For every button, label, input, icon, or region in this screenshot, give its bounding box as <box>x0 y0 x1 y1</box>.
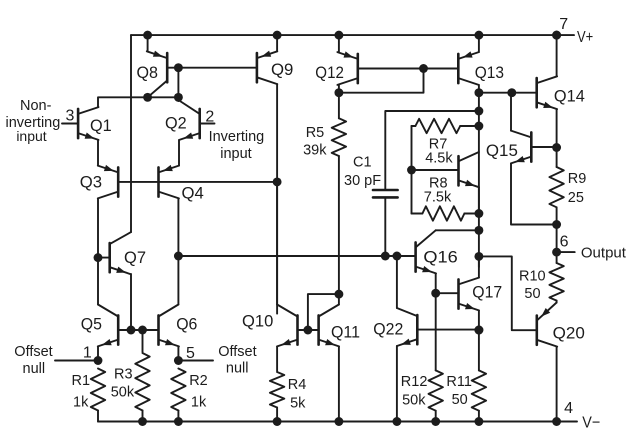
svg-text:Output: Output <box>581 245 627 262</box>
node Q7 base <box>94 253 103 262</box>
wire Q7 collector to V+ <box>130 35 132 232</box>
wire C1 top <box>385 111 479 189</box>
wire Q1 collector <box>98 97 178 107</box>
svg-text:5k: 5k <box>290 395 306 411</box>
node Q22 collector <box>392 252 401 261</box>
svg-text:input: input <box>16 128 46 144</box>
wire base to collectors <box>177 68 179 98</box>
resistor R11 <box>446 330 486 422</box>
node Q9 emitter rail <box>273 31 282 40</box>
node Q16 collector bus <box>474 226 483 235</box>
node Q15 emitter <box>552 220 561 229</box>
node Q13 emitter rail <box>474 31 483 40</box>
resistor R9 <box>549 167 586 225</box>
svg-text:25: 25 <box>568 190 584 206</box>
node R7R8 base tap <box>407 166 416 175</box>
node R2 rail <box>174 417 183 426</box>
resistor R8 <box>412 176 479 221</box>
resistor R7 <box>412 119 479 167</box>
svg-text:Q13: Q13 <box>475 63 504 82</box>
node base tie Q8Q9 <box>174 63 183 72</box>
wire Q8-Q9 base line <box>167 67 257 69</box>
wire Q22 emitter down <box>396 346 398 422</box>
transistor Q22 <box>373 308 417 346</box>
transistor Q13 <box>458 51 504 85</box>
node Q11 collector tie <box>334 290 343 299</box>
svg-text:Q7: Q7 <box>124 248 146 267</box>
node Q12 emitter rail <box>334 31 343 40</box>
wire Q16 emitter down <box>435 273 437 370</box>
svg-text:R9: R9 <box>568 171 587 187</box>
label Offset null right <box>218 344 256 377</box>
node pin 7 V+ <box>552 16 593 46</box>
wire Q11 emitter down <box>338 346 340 421</box>
svg-text:2: 2 <box>205 109 214 126</box>
svg-text:Q15: Q15 <box>486 141 518 160</box>
wire R2 bottom <box>177 411 179 422</box>
svg-text:null: null <box>23 361 46 377</box>
pin 2 lead <box>200 109 215 126</box>
transistor Q6 <box>159 305 198 347</box>
wire base tie up <box>308 294 339 330</box>
wire right bus upper <box>478 93 480 267</box>
node pin 5 <box>174 356 183 365</box>
node pin 4 V- <box>552 400 600 431</box>
node Q13 collector <box>474 88 483 97</box>
wire Q4 collector down <box>177 198 179 256</box>
svg-text:5: 5 <box>186 345 195 362</box>
svg-text:R11: R11 <box>446 374 472 390</box>
wire second stage input <box>178 255 415 257</box>
node R7 right <box>474 122 483 131</box>
svg-text:1: 1 <box>83 344 92 361</box>
svg-text:4.5k: 4.5k <box>425 150 453 166</box>
node Q22 emitter rail <box>392 417 401 426</box>
node Q15 base <box>552 143 561 152</box>
wire Q14 base line <box>479 92 537 94</box>
wire Q20 collector down <box>556 347 558 422</box>
resistor R5 <box>303 93 346 159</box>
transistor Q1 <box>78 107 112 140</box>
wire Q13 collector <box>478 85 480 93</box>
pin 5 lead <box>178 345 213 362</box>
resistor R2 <box>171 369 208 411</box>
node Q11 emitter rail <box>334 417 343 426</box>
node R4 rail <box>273 417 282 426</box>
node R11 rail <box>474 417 483 426</box>
svg-text:R10: R10 <box>519 269 546 285</box>
node Q17 emitter <box>474 326 483 335</box>
svg-text:Q20: Q20 <box>553 323 585 342</box>
node pin 1 <box>94 356 103 365</box>
transistor Q15 <box>486 131 531 164</box>
node Q8 collector <box>143 93 152 102</box>
wire Q11 collector up <box>338 156 340 305</box>
transistor Q10 <box>242 305 298 347</box>
wire R3 top <box>142 330 144 352</box>
wire Q8 emitter <box>147 35 149 51</box>
wire Q9 emitter <box>276 35 278 51</box>
wire Q15 collector up <box>510 93 512 131</box>
transistor Q20 pnp <box>537 303 585 347</box>
svg-text:Q11: Q11 <box>331 323 360 342</box>
node Q12 collector <box>334 88 343 97</box>
node Q10Q11 base tie <box>303 326 312 335</box>
svg-text:50k: 50k <box>111 385 135 401</box>
wire Q3 collector down <box>97 198 99 304</box>
wire R1 bottom <box>97 411 99 422</box>
svg-text:null: null <box>226 361 249 377</box>
node R3 tap <box>138 326 147 335</box>
transistor Q8 <box>137 51 168 98</box>
pin 1 lead <box>55 344 98 361</box>
transistor Q9 <box>257 51 294 85</box>
transistor Q3 <box>80 165 118 199</box>
wire Q17 collector up <box>478 256 480 277</box>
wire Q5-Q6 base line <box>118 329 158 331</box>
label Offset null left <box>14 344 52 377</box>
wire Q10 emitter down <box>276 346 278 371</box>
transistor Q14 <box>537 76 585 109</box>
svg-text:Offset: Offset <box>218 344 256 360</box>
wire Q12-Q13 base line <box>358 68 459 70</box>
svg-text:3: 3 <box>66 107 75 124</box>
svg-text:R1: R1 <box>72 373 91 389</box>
node C1 bottom <box>381 252 390 261</box>
wire Q14 collector <box>556 35 558 76</box>
transistor Q2 <box>165 100 200 140</box>
wire Q9 collector down <box>276 84 278 314</box>
node Q1Q2 collectors <box>174 93 183 102</box>
svg-text:R4: R4 <box>288 377 307 393</box>
svg-text:Q2: Q2 <box>165 113 187 132</box>
wire Q14 emitter down <box>556 109 558 167</box>
svg-text:R5: R5 <box>306 125 325 141</box>
svg-text:Inverting: Inverting <box>209 129 265 145</box>
transistor Q7 <box>110 232 146 274</box>
svg-text:Q4: Q4 <box>182 183 204 202</box>
svg-text:Q6: Q6 <box>176 315 197 334</box>
wire Q2-Q4 emitters <box>178 140 180 166</box>
svg-text:Q17: Q17 <box>472 283 502 302</box>
wire Q2 collector <box>177 97 179 101</box>
wire Q10 collector up <box>276 182 278 305</box>
wire R12 bottom <box>435 411 437 422</box>
node C1 top bus <box>474 107 483 116</box>
svg-text:Q8: Q8 <box>137 63 159 82</box>
svg-text:Q1: Q1 <box>90 116 112 135</box>
svg-text:7: 7 <box>559 16 568 33</box>
resistor R10 <box>519 263 564 302</box>
capacitor C1 <box>344 154 398 197</box>
svg-text:50k: 50k <box>402 393 426 409</box>
label Non-inverting input <box>5 98 60 144</box>
transistor Q16 <box>416 230 458 273</box>
svg-text:7.5k: 7.5k <box>424 190 452 206</box>
svg-text:50: 50 <box>524 286 540 302</box>
svg-text:Q16: Q16 <box>423 247 457 266</box>
wire R7R8 left bus <box>411 126 413 214</box>
wire Q22 collector up <box>396 256 398 308</box>
wire Q10-Q11 base line <box>298 329 319 331</box>
wire R4 bottom <box>276 408 278 422</box>
wire Q22 base line <box>417 329 479 331</box>
wire base tap to Q12 collector <box>339 69 424 93</box>
svg-text:1k: 1k <box>191 394 207 410</box>
wire V+ rail <box>131 34 574 36</box>
wire Q20 base line <box>479 256 537 330</box>
node Q17 base tap <box>431 289 440 298</box>
resistor R1 <box>72 369 106 411</box>
svg-text:R12: R12 <box>401 374 428 390</box>
wire Q12 emitter <box>338 35 340 52</box>
node Q14 collector rail <box>552 31 561 40</box>
svg-text:Q3: Q3 <box>80 173 102 192</box>
svg-text:Q14: Q14 <box>554 86 585 105</box>
transistor Q17 <box>436 278 502 311</box>
wire Q7 base <box>98 257 110 259</box>
node R12 rail <box>431 417 440 426</box>
svg-text:Q5: Q5 <box>81 315 102 334</box>
wire Q1-Q3 emitters <box>97 140 99 166</box>
svg-text:1k: 1k <box>73 394 89 410</box>
svg-text:30 pF: 30 pF <box>344 173 381 189</box>
transistor Q11 <box>319 305 360 347</box>
resistor R12 <box>401 370 443 410</box>
svg-text:50: 50 <box>452 392 468 408</box>
svg-text:V−: V− <box>582 414 600 431</box>
svg-text:R2: R2 <box>189 373 208 389</box>
wire Q12 collector <box>338 85 340 93</box>
wire Q7 emitter down <box>130 274 132 330</box>
transistor Q5 <box>81 305 118 347</box>
node R3 rail <box>138 417 147 426</box>
wire R9 to pin6 <box>556 225 558 264</box>
wire Q15 emitter wrap <box>511 163 557 224</box>
wire Q13 emitter <box>478 35 480 52</box>
svg-text:Offset: Offset <box>14 344 52 360</box>
label Inverting input <box>209 129 265 162</box>
node Q17 collector <box>474 252 483 261</box>
node pin 6 <box>552 248 561 257</box>
wire C1 bottom <box>384 199 386 257</box>
svg-text:39k: 39k <box>303 142 327 158</box>
wire Q16 collector <box>436 229 479 231</box>
wire V- rail <box>98 421 577 423</box>
node Q22 base tie <box>474 326 483 335</box>
svg-text:Q22: Q22 <box>373 320 403 339</box>
svg-text:input: input <box>220 146 251 162</box>
node Q6 collector <box>174 252 183 261</box>
wire Q3-Q4 base line <box>118 181 277 183</box>
wire Q6 collector up <box>177 256 179 305</box>
wire Q18 emitter down <box>478 187 480 213</box>
svg-text:R3: R3 <box>114 367 133 383</box>
wire Q15 base <box>531 146 556 148</box>
svg-text:6: 6 <box>560 234 569 251</box>
transistor Q4 <box>159 165 204 202</box>
node Q7 emitter <box>127 326 136 335</box>
wire Q17 emitter down <box>478 310 480 330</box>
wire R10 to Q20 emitter <box>556 301 558 303</box>
svg-text:Non-: Non- <box>20 98 52 114</box>
transistor Q18 vbe multiplier <box>412 152 479 187</box>
wire R3 bottom <box>142 411 144 422</box>
pin 3 lead <box>62 107 78 124</box>
wire Q5 emitter down <box>97 346 99 360</box>
node Q12Q13 base tap <box>419 64 428 73</box>
transistor Q12 <box>315 51 358 85</box>
node R8 right <box>474 209 483 218</box>
node Q3Q4 base junction <box>273 177 282 186</box>
node Q8 emitter rail <box>143 31 152 40</box>
svg-text:4: 4 <box>564 400 573 417</box>
wire Q6 emitter down <box>177 346 179 360</box>
svg-text:V+: V+ <box>577 29 593 46</box>
svg-text:Q9: Q9 <box>271 60 293 79</box>
node Q15 collector <box>507 88 516 97</box>
svg-text:Q12: Q12 <box>315 63 344 82</box>
resistor R4 <box>270 372 306 411</box>
resistor R3 <box>111 353 150 411</box>
pin 6 lead <box>557 234 627 262</box>
svg-text:Q10: Q10 <box>242 311 273 330</box>
svg-text:C1: C1 <box>353 154 372 170</box>
